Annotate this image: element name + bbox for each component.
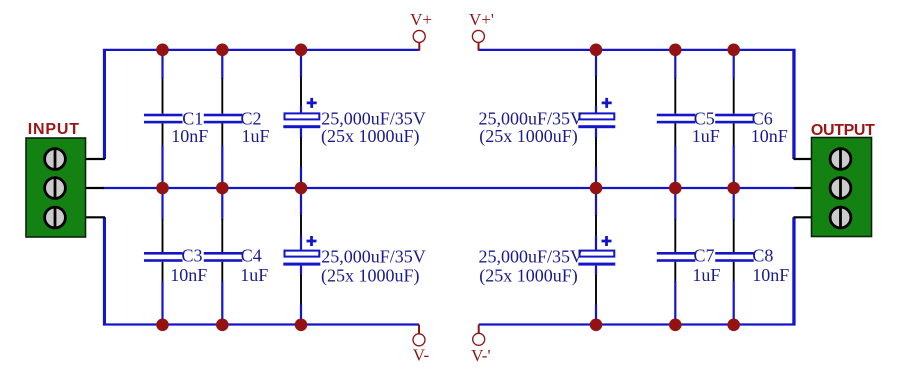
svg-text:1uF: 1uF [692, 265, 720, 285]
capacitor electrolytic bottom-left 25,000uF/35V [283, 188, 425, 325]
svg-text:INPUT: INPUT [28, 121, 80, 138]
terminal V+ [410, 10, 432, 51]
svg-text:25,000uF/35V: 25,000uF/35V [478, 246, 583, 266]
junction mid rail node F [727, 182, 740, 195]
terminal V- [413, 325, 430, 365]
capacitor C1 [144, 50, 208, 189]
svg-text:C8: C8 [752, 246, 773, 266]
wire output pin stub bottom [793, 216, 812, 218]
junction mid rail node D [590, 182, 603, 195]
wire output pin stub middle [795, 187, 813, 189]
svg-text:(25x 1000uF): (25x 1000uF) [321, 266, 420, 287]
capacitor C6 [715, 50, 788, 189]
svg-text:(25x 1000uF): (25x 1000uF) [479, 126, 578, 147]
svg-text:V-: V- [413, 346, 430, 365]
svg-text:V+': V+' [469, 10, 494, 29]
svg-text:1uF: 1uF [240, 265, 268, 285]
junction top rail node E [669, 44, 682, 57]
junction mid rail node A [156, 182, 169, 195]
svg-text:10nF: 10nF [751, 126, 788, 146]
junction bottom rail node E [669, 319, 682, 332]
capacitor C7 [657, 188, 721, 325]
svg-text:V+: V+ [410, 10, 432, 29]
wire input pin stub top [85, 158, 105, 160]
capacitor electrolytic top-right 25,000uF/35V [478, 50, 615, 189]
terminal V-' [471, 325, 490, 365]
svg-text:C4: C4 [241, 246, 262, 266]
wire bottom rail right [479, 217, 795, 324]
junction mid rail node E [669, 182, 682, 195]
svg-text:10nF: 10nF [170, 265, 207, 285]
wire top rail right [479, 50, 795, 160]
capacitor C4 [204, 188, 268, 325]
svg-text:C3: C3 [182, 246, 203, 266]
junction bottom rail node A [156, 319, 169, 332]
svg-text:25,000uF/35V: 25,000uF/35V [321, 246, 426, 266]
svg-text:10nF: 10nF [752, 265, 789, 285]
capacitor C5 [657, 50, 720, 189]
junction bottom rail node D [590, 319, 603, 332]
svg-text:OUTPUT: OUTPUT [811, 122, 875, 139]
svg-text:(25x 1000uF): (25x 1000uF) [321, 126, 420, 147]
wire input pin stub bottom [85, 216, 105, 218]
junction top rail node A [156, 44, 169, 57]
junction bottom rail node C [295, 319, 308, 332]
wire input pin stub middle [85, 187, 104, 189]
capacitor C8 [715, 188, 789, 325]
capacitor electrolytic top-left 25,000uF/35V [283, 50, 425, 189]
wire top rail left [104, 50, 419, 160]
svg-text:10nF: 10nF [171, 126, 208, 146]
capacitor electrolytic bottom-right 25,000uF/35V [478, 188, 615, 325]
junction top rail node D [590, 44, 603, 57]
svg-text:C7: C7 [694, 246, 715, 266]
wire output pin stub top [793, 158, 812, 160]
wire bottom rail left [104, 217, 419, 324]
connector OUTPUT terminal block [811, 122, 875, 237]
svg-text:1uF: 1uF [242, 126, 270, 146]
capacitor C2 [204, 50, 270, 189]
junction bottom rail node F [727, 319, 740, 332]
junction top rail node B [216, 44, 229, 57]
junction top rail node F [727, 44, 740, 57]
svg-text:V-': V-' [471, 346, 490, 365]
connector INPUT terminal block [26, 121, 86, 237]
junction mid rail node B [216, 182, 229, 195]
terminal V+' [469, 10, 494, 51]
junction top rail node C [295, 44, 308, 57]
junction bottom rail node B [216, 319, 229, 332]
capacitor C3 [144, 188, 207, 325]
wire middle rail [103, 187, 795, 189]
junction mid rail node C [295, 182, 308, 195]
svg-text:1uF: 1uF [692, 126, 720, 146]
svg-text:(25x 1000uF): (25x 1000uF) [479, 266, 578, 287]
